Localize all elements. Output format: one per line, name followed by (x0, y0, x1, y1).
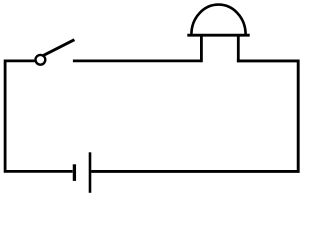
wire left rail: switch terminal down left side and along bottom to battery negative plate (5, 61, 73, 171)
bell base line (187, 34, 249, 37)
switch S1 pivot circle (36, 55, 46, 65)
switch S1 open lever arm (43, 40, 74, 56)
wire right: bell right terminal along top, down right side and along bottom to battery positive plate (91, 61, 298, 171)
bell right leg (237, 35, 240, 62)
bell dome (gong) (191, 5, 245, 35)
battery positive long plate (89, 152, 92, 193)
battery negative short plate (73, 164, 76, 181)
wire top: switch right terminal to bell left leg (73, 60, 202, 63)
bell left leg (200, 35, 203, 62)
